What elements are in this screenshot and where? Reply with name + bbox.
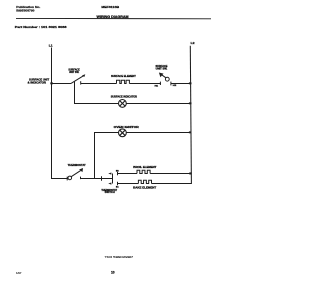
svg-text:H1: H1 — [155, 86, 158, 88]
svg-text:L2: L2 — [191, 41, 196, 45]
bake element — [133, 180, 157, 189]
svg-text:1/97: 1/97 — [16, 271, 22, 275]
switch SW1 surface unit switch — [68, 69, 85, 86]
svg-text:UNIT SW.: UNIT SW. — [69, 71, 79, 74]
svg-text:10: 10 — [111, 270, 115, 274]
svg-text:TMI 5990299P: TMI 5990299P — [105, 255, 134, 259]
svg-text:SURFACE ELEMENT: SURFACE ELEMENT — [111, 75, 136, 78]
wire broil row right — [150, 173, 191, 175]
wire top row mid — [81, 83, 117, 85]
svg-text:MEF311SB: MEF311SB — [101, 5, 120, 9]
lamp oven ignitor — [114, 126, 139, 137]
wire bake row right — [152, 183, 192, 185]
svg-text:BROIL ELEMENT: BROIL ELEMENT — [133, 166, 157, 169]
wire indicator drop — [74, 84, 76, 105]
svg-text:H2: H2 — [173, 85, 176, 87]
header publication text — [16, 5, 40, 12]
svg-text:OVEN IGNITOR: OVEN IGNITOR — [114, 126, 139, 129]
node junction L1 top row — [50, 82, 53, 84]
node junction L2 broil row — [189, 172, 191, 174]
wire top row right of element — [129, 83, 160, 85]
svg-text:THERMOSTAT: THERMOSTAT — [68, 164, 86, 167]
svg-text:SURFACE INDICATOR: SURFACE INDICATOR — [111, 96, 137, 99]
lamp surface indicator — [111, 96, 137, 108]
wire bake row left — [118, 183, 139, 185]
wire L1 vertical — [51, 48, 53, 180]
svg-text:Part Number : 101 3021 3068: Part Number : 101 3021 3068 — [15, 25, 67, 29]
header rule — [16, 17, 211, 19]
node junction L2 top row — [189, 82, 192, 84]
wire thermostat row mid — [81, 178, 113, 180]
svg-text:& INDICATOR: & INDICATOR — [28, 81, 47, 84]
wire top row left — [51, 83, 71, 85]
wire ignitor vertical — [94, 133, 96, 179]
svg-text:SWITCH: SWITCH — [105, 191, 115, 194]
selector switch bar — [101, 170, 119, 194]
svg-text:BR: BR — [116, 170, 119, 172]
svg-text:UNIT SW.: UNIT SW. — [156, 68, 168, 71]
surface element — [111, 75, 136, 83]
svg-text:L1: L1 — [49, 43, 53, 47]
node contact tick — [101, 176, 103, 180]
svg-text:BAKE ELEMENT: BAKE ELEMENT — [133, 186, 157, 189]
broil element — [133, 166, 157, 173]
wire ignitor row — [94, 132, 191, 134]
thermostat — [67, 164, 86, 180]
svg-text:5995308790: 5995308790 — [16, 8, 35, 12]
node junction L2 ignitor row — [189, 131, 192, 133]
switch SW2 surface unit switch right — [155, 65, 177, 87]
wire broil row left — [118, 173, 138, 175]
wire indicator row — [74, 103, 191, 105]
wire top row to L2 — [171, 83, 191, 85]
wire L2 vertical — [190, 46, 191, 184]
wire thermostat row from L1 — [51, 178, 68, 180]
label surface unit & indicator — [28, 78, 50, 84]
node junction L2 indicator row — [189, 102, 192, 104]
